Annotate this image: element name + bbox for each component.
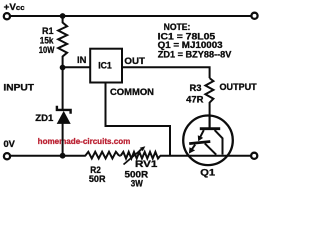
Q1 second emitter — [192, 145, 196, 150]
svg-text:homemade-circuits.com: homemade-circuits.com — [38, 137, 131, 146]
wire OUT — [122, 67, 210, 78]
Q1 first collector — [215, 130, 223, 155]
node IN junction — [60, 65, 66, 71]
Q1 first base bar — [200, 127, 220, 130]
resistor R3 — [205, 78, 213, 127]
ZD1 cathode bar — [57, 106, 71, 114]
svg-text:3W: 3W — [131, 179, 143, 189]
node R1 top junction — [60, 13, 66, 19]
svg-text:+Vcc: +Vcc — [4, 2, 25, 12]
ZD1 anode wire — [62, 124, 64, 156]
Q1 second collector — [205, 143, 216, 154]
svg-text:RV1: RV1 — [135, 159, 157, 169]
RV1 wiper shaft — [124, 149, 142, 164]
svg-text:IN: IN — [77, 55, 86, 65]
ZD1 cathode wire — [62, 68, 64, 111]
svg-text:10W: 10W — [39, 45, 55, 55]
svg-text:ZD1 = BZY88--8V: ZD1 = BZY88--8V — [158, 49, 232, 59]
wire bottom rail — [10, 155, 86, 157]
terminal output — [251, 153, 257, 159]
svg-text:47R: 47R — [186, 94, 204, 104]
wire R2-RV1 — [119, 155, 121, 157]
svg-text:COMMON: COMMON — [110, 87, 154, 97]
svg-text:0V: 0V — [4, 139, 15, 149]
svg-text:INPUT: INPUT — [3, 82, 34, 92]
svg-text:IC1: IC1 — [98, 61, 112, 71]
wire top rail — [10, 15, 252, 17]
ZD1 anode triangle — [57, 111, 71, 124]
svg-text:OUTPUT: OUTPUT — [220, 82, 258, 92]
wire IN — [63, 66, 90, 68]
wire bottom rail right — [160, 155, 251, 157]
RV1 wiper arrowhead — [140, 146, 146, 151]
RV1 wiper arrow — [124, 146, 146, 164]
potentiometer RV1 — [121, 152, 161, 159]
svg-text:R1: R1 — [42, 26, 54, 36]
Q1 envelope circle — [183, 116, 233, 166]
svg-text:ZD1: ZD1 — [35, 113, 53, 123]
resistor R2 — [85, 152, 119, 159]
wire COMMON — [106, 83, 171, 156]
svg-text:50R: 50R — [89, 174, 106, 184]
resistor R1 — [58, 16, 67, 68]
terminal 0V — [4, 153, 10, 159]
svg-text:Q1: Q1 — [200, 167, 215, 177]
svg-text:R3: R3 — [190, 83, 202, 93]
Q1 second base bar — [189, 142, 210, 144]
terminal top right — [251, 13, 257, 19]
node ZD1 bottom junction — [60, 153, 66, 159]
terminal +Vcc — [4, 13, 10, 19]
zener ZD1 — [57, 68, 71, 156]
transistor Q1 — [183, 116, 233, 166]
op-amp U1 IC1 box — [90, 49, 122, 83]
svg-text:OUT: OUT — [124, 56, 145, 66]
Q1 base lead — [209, 116, 211, 128]
svg-text:Q1 = MJ10003: Q1 = MJ10003 — [158, 40, 223, 50]
Q1 first emitter — [199, 130, 204, 139]
